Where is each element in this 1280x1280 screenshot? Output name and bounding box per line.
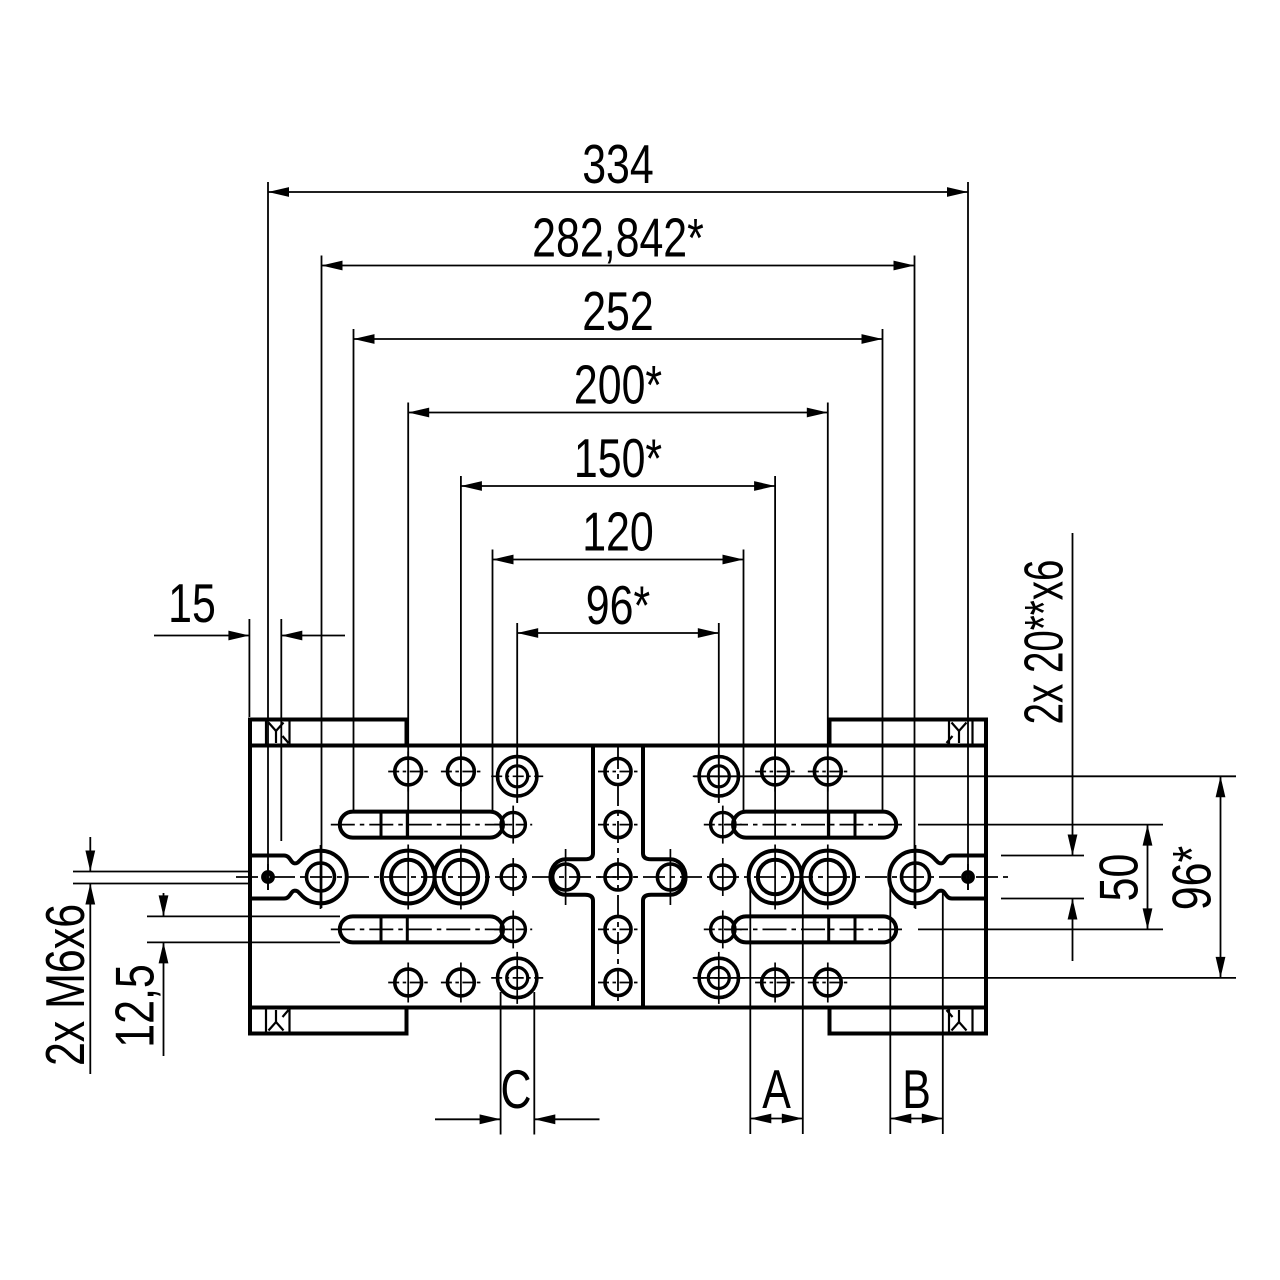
lower-left slot end hole	[501, 917, 525, 941]
svg-text:120: 120	[582, 501, 654, 563]
centre channel right lobe hole	[657, 864, 683, 890]
centre strip hole 5	[605, 970, 631, 996]
top row hole right inner	[762, 758, 789, 785]
dimension 50	[918, 824, 1163, 826]
extension lines for 282,842*	[321, 256, 323, 909]
left keyhole cutout contour	[250, 851, 347, 904]
bottom row hole left inner	[448, 969, 475, 996]
bottom row hole right inner	[762, 969, 789, 996]
centre channel left lobe hole	[553, 864, 579, 890]
svg-text:B: B	[902, 1058, 931, 1120]
bottom row hole right outer	[814, 969, 841, 996]
clamp section in top-right tab	[948, 721, 950, 745]
dimension 12,5	[147, 915, 340, 917]
dimension B	[889, 884, 891, 1134]
upper-right slot end hole	[711, 812, 735, 836]
extension lines for 15	[248, 619, 250, 717]
svg-text:96*: 96*	[1161, 846, 1223, 910]
extension lines for 150*	[460, 476, 462, 838]
centre channel right contour	[643, 746, 686, 1008]
centre strip hole 1	[605, 759, 631, 785]
dimension A	[749, 886, 751, 1134]
bottom-left mounting tab	[250, 1008, 407, 1034]
svg-text:150*: 150*	[574, 427, 662, 489]
dimension 120	[493, 559, 744, 561]
mid-row small hole right	[711, 865, 735, 889]
svg-text:334: 334	[582, 133, 654, 195]
upper-right T-slot	[733, 812, 896, 838]
large bore right inner	[749, 851, 802, 904]
top row hole right outer	[814, 758, 841, 785]
dimension 282,842*	[322, 265, 915, 267]
dimension 2x M6x6	[73, 871, 249, 873]
mid-row small hole left	[501, 865, 525, 889]
left keyhole hole	[307, 863, 335, 891]
svg-text:A: A	[762, 1058, 791, 1120]
centre strip hole 3	[605, 864, 631, 890]
large bore left inner	[435, 851, 488, 904]
centre strip hole 4	[605, 916, 631, 942]
top row hole left outer	[395, 758, 422, 785]
dimension 2x 20**x6	[1001, 855, 1084, 857]
upper-left slot end hole	[501, 812, 525, 836]
top-right counterbored hole	[699, 757, 738, 796]
top row hole left inner	[448, 758, 475, 785]
bottom-right mounting tab	[830, 1008, 987, 1034]
svg-text:200*: 200*	[574, 354, 662, 416]
left M6 tab hole	[264, 873, 272, 881]
horizontal centreline	[236, 876, 1008, 878]
plate body outline	[250, 746, 986, 1008]
dimension C	[500, 992, 502, 1135]
svg-text:12,5: 12,5	[104, 964, 166, 1048]
top-right mounting tab	[830, 720, 987, 746]
extension lines for 200*	[407, 403, 409, 838]
dimension 96*	[517, 632, 719, 634]
dimension 334	[268, 191, 968, 193]
svg-text:282,842*: 282,842*	[532, 207, 704, 269]
large bore right outer	[801, 851, 854, 904]
svg-text:15: 15	[168, 572, 216, 634]
right keyhole cutout contour	[889, 851, 986, 904]
lower-left T-slot	[340, 916, 503, 942]
large bore left outer	[382, 851, 435, 904]
clamp section in top-left tab	[265, 721, 267, 745]
extension lines for 252	[353, 329, 355, 812]
extension lines for 120	[492, 550, 494, 812]
extension lines for 96*	[516, 623, 518, 803]
dimension 150*	[461, 485, 775, 487]
clamp section in bottom-left tab	[265, 1009, 267, 1033]
svg-text:252: 252	[582, 280, 654, 342]
svg-text:2x 20**x6: 2x 20**x6	[1013, 560, 1075, 725]
top-left mounting tab	[250, 720, 407, 746]
svg-text:2x M6x6: 2x M6x6	[34, 904, 96, 1066]
clamp section in bottom-right tab	[948, 1009, 950, 1033]
svg-text:C: C	[501, 1058, 532, 1120]
svg-text:96*: 96*	[586, 574, 650, 636]
dimension 252	[354, 338, 883, 340]
bottom-left counterbored hole	[498, 958, 537, 997]
dimension 200*	[408, 412, 828, 414]
svg-text:50: 50	[1088, 854, 1150, 902]
bottom-right counterbored hole	[699, 958, 738, 997]
bottom row hole left outer	[395, 969, 422, 996]
upper-left T-slot	[340, 812, 503, 838]
right keyhole hole	[902, 863, 930, 891]
centre strip hole 2	[605, 812, 631, 838]
extension lines for 334	[267, 182, 269, 890]
top-left counterbored hole	[498, 757, 537, 796]
lower-right T-slot	[733, 916, 896, 942]
right M6 tab hole	[964, 873, 972, 881]
vertical centreline of centre strip	[617, 747, 619, 1006]
lower-right slot end hole	[711, 917, 735, 941]
dimension 96* vertical	[694, 775, 1236, 777]
centre channel left contour	[550, 746, 593, 1008]
dimension 15	[154, 635, 249, 637]
